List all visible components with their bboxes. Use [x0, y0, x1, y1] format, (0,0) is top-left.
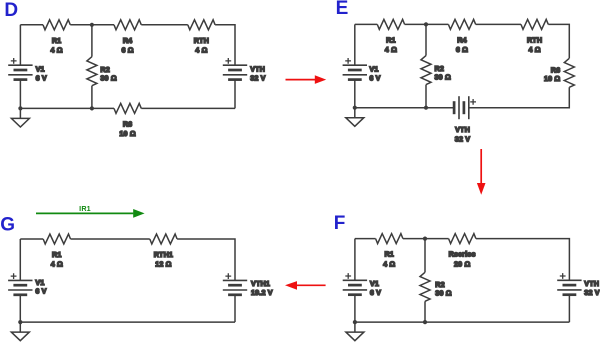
svg-text:19.2 V: 19.2 V — [251, 288, 273, 297]
svg-text:R1: R1 — [52, 250, 62, 259]
svg-text:VTH: VTH — [250, 65, 265, 74]
wire E top between R4 and RTH — [476, 23, 521, 25]
node F bottom-left junction — [353, 320, 357, 324]
wire G top-left segment — [20, 238, 43, 240]
ground (G) — [11, 322, 29, 341]
wire D top between R4 and RTH — [141, 24, 188, 26]
node E bottom-left junction — [353, 106, 357, 110]
wire E left vertical lower — [354, 80, 356, 108]
svg-text:6 Ω: 6 Ω — [456, 45, 468, 54]
arrow E to F (red, down) — [477, 149, 486, 195]
wire D mid vertical lower — [91, 86, 93, 109]
svg-text:6 V: 6 V — [370, 288, 381, 297]
svg-text:4 Ω: 4 Ω — [528, 45, 540, 54]
arrow D to E (red, right) — [286, 75, 327, 84]
wire E mid vertical lower — [425, 85, 427, 108]
node F bottom-mid junction — [423, 320, 427, 324]
wire F left vertical upper — [354, 239, 356, 281]
svg-text:RTH: RTH — [527, 36, 542, 45]
resistor Rseries (F) 20 ohm — [449, 234, 476, 269]
resistor R6 (E) 10 ohm vertical — [544, 58, 574, 87]
svg-text:12 Ω: 12 Ω — [155, 260, 171, 269]
wire E top between R1 and R4 — [405, 23, 449, 25]
svg-text:VTH: VTH — [455, 125, 470, 134]
wire E top-left segment — [355, 23, 378, 25]
svg-text:V1: V1 — [36, 65, 45, 74]
voltage source VTH (D) 32V — [223, 58, 266, 83]
node E top-mid junction — [424, 22, 428, 26]
wire E right vertical lower — [469, 87, 570, 107]
resistor R1 (D) — [43, 20, 70, 55]
svg-text:V1: V1 — [370, 279, 379, 288]
wire E bottom left segment — [355, 107, 454, 109]
resistor R1 (G) — [43, 234, 70, 269]
ground (F) — [346, 322, 364, 341]
svg-text:32 V: 32 V — [250, 74, 265, 83]
wire G left vertical lower — [19, 295, 21, 322]
resistor R4 (E) — [448, 19, 475, 54]
node D top-mid junction — [90, 23, 94, 27]
svg-text:32 V: 32 V — [584, 288, 599, 297]
wire F mid vertical upper — [424, 239, 426, 273]
voltage source V1 (E) 6V — [343, 58, 381, 83]
svg-text:IR1: IR1 — [79, 204, 91, 213]
svg-text:RTH1: RTH1 — [154, 250, 173, 259]
wire D top-right corner down — [215, 25, 235, 65]
resistor RTH (E) — [521, 19, 548, 54]
wire G bottom — [20, 321, 235, 323]
resistor R2 (F) 30 ohm — [420, 272, 452, 301]
svg-text:4 Ω: 4 Ω — [51, 260, 63, 269]
node E bottom-mid junction — [424, 106, 428, 110]
svg-text:G: G — [0, 215, 15, 236]
svg-text:10 Ω: 10 Ω — [119, 129, 135, 138]
ground (D) — [11, 108, 29, 127]
svg-text:30 Ω: 30 Ω — [100, 73, 116, 82]
svg-text:6 V: 6 V — [35, 287, 46, 296]
node D bottom-mid junction — [90, 106, 94, 110]
svg-text:10 Ω: 10 Ω — [544, 74, 560, 83]
node G bottom-left junction — [18, 320, 22, 324]
resistor RTH1 (G) 12 ohm — [150, 234, 177, 269]
wire E left vertical upper — [354, 24, 356, 65]
wire G top-right corner down — [177, 239, 235, 280]
svg-text:V1: V1 — [369, 65, 378, 74]
wire F left vertical lower — [354, 295, 356, 322]
svg-text:VTH: VTH — [584, 279, 599, 288]
svg-text:32 V: 32 V — [455, 135, 470, 144]
svg-text:D: D — [4, 0, 18, 21]
svg-text:20 Ω: 20 Ω — [454, 259, 470, 268]
svg-text:R1: R1 — [386, 36, 396, 45]
svg-text:Rseries: Rseries — [449, 250, 476, 259]
voltage source VTH (E) 32V horizontal — [454, 96, 476, 144]
svg-text:30 Ω: 30 Ω — [435, 289, 451, 298]
node D bottom-left junction — [18, 106, 22, 110]
wire D mid vertical upper — [91, 25, 93, 57]
svg-text:R1: R1 — [384, 250, 394, 259]
voltage source V1 (G) 6V — [8, 273, 47, 295]
wire G right vertical lower — [234, 295, 236, 322]
wire F top-left segment — [355, 238, 376, 240]
svg-text:4 Ω: 4 Ω — [383, 259, 395, 268]
wire E top-right corner down — [548, 24, 569, 58]
wire F right vertical lower — [568, 295, 570, 322]
resistor R2 (D) 30 ohm — [87, 57, 117, 86]
wire F bottom — [355, 321, 570, 323]
wire G left vertical upper — [19, 239, 21, 280]
current arrow IR1 (green) — [36, 204, 145, 218]
voltage source VTH (F) 32V — [557, 273, 600, 297]
svg-text:VTH1: VTH1 — [251, 279, 270, 288]
svg-text:E: E — [336, 0, 349, 19]
svg-text:R6: R6 — [123, 120, 133, 129]
ground (E) — [346, 108, 364, 127]
svg-text:R1: R1 — [52, 36, 62, 45]
wire G top between R1 and RTH1 — [71, 238, 150, 240]
svg-text:R4: R4 — [457, 36, 467, 45]
svg-text:30 Ω: 30 Ω — [435, 73, 451, 82]
svg-text:6 V: 6 V — [369, 74, 380, 83]
wire D right vertical lower — [234, 80, 236, 109]
wire D top-left segment — [20, 24, 43, 26]
voltage source V1 (D) 6V — [8, 58, 47, 83]
svg-text:6 V: 6 V — [36, 74, 47, 83]
resistor R2 (E) 30 ohm — [421, 56, 451, 85]
svg-text:R4: R4 — [123, 36, 133, 45]
wire D top between R1 and R4 — [70, 24, 114, 26]
resistor R1 (F) — [376, 234, 403, 269]
wire D left vertical lower — [19, 80, 21, 109]
wire E mid vertical upper — [425, 24, 427, 55]
svg-text:4 Ω: 4 Ω — [195, 46, 207, 55]
voltage source VTH1 (G) 19.2V — [223, 273, 273, 297]
svg-text:4 Ω: 4 Ω — [385, 45, 397, 54]
svg-text:6 Ω: 6 Ω — [121, 46, 133, 55]
wire F mid vertical lower — [424, 301, 426, 322]
voltage source V1 (F) 6V — [343, 273, 381, 297]
svg-text:RTH: RTH — [194, 36, 209, 45]
resistor R6 (D) 10 ohm — [114, 103, 141, 138]
resistor RTH (D) — [188, 20, 215, 55]
wire F top between R1 and Rseries — [403, 238, 449, 240]
svg-text:F: F — [334, 213, 346, 234]
wire F top-right segment and corner down — [476, 239, 570, 281]
svg-text:4 Ω: 4 Ω — [50, 46, 62, 55]
node F top-mid junction — [423, 237, 427, 241]
resistor R1 (E) — [377, 19, 404, 54]
resistor R4 (D) — [114, 20, 141, 55]
wire D bottom left segment — [20, 107, 114, 109]
wire D bottom right segment — [141, 107, 235, 109]
wire D left vertical upper — [19, 25, 21, 65]
arrow F to G (red, left) — [285, 281, 326, 290]
